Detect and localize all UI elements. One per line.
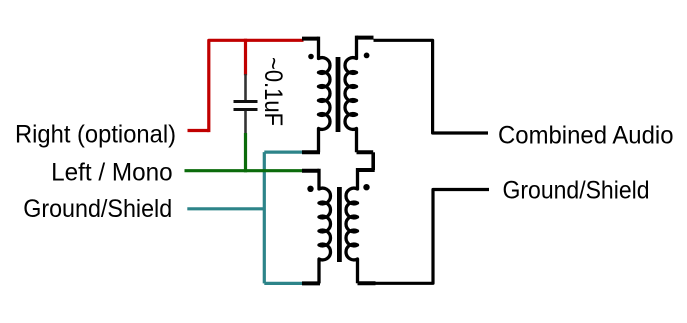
T2 secondary winding (right coil): [346, 168, 357, 283]
wire red: Right input stub at label: [188, 129, 209, 132]
T1 primary top terminal stub: [302, 37, 319, 41]
wire black: series link T1 secondary bottom to T2 secondary top: [371, 152, 375, 170]
T1 secondary top terminal stub: [357, 36, 374, 40]
T1 polarity dot primary: [308, 54, 314, 60]
svg-text:Ground/Shield: Ground/Shield: [23, 195, 172, 223]
capacitor C1 bottom plate: [234, 108, 258, 111]
capacitor C1 upper lead (grey): [244, 74, 247, 101]
wire black: output ground run to Ground/Shield (right): [375, 190, 490, 284]
wire red: vertical riser and top horizontal run to T1 primary top: [209, 40, 304, 132]
svg-text:Right (optional): Right (optional): [15, 121, 176, 149]
capacitor C1 top plate: [234, 100, 258, 103]
wire teal: vertical bus: [263, 152, 266, 283]
T2 secondary top terminal stub: [358, 168, 375, 172]
T1 polarity dot secondary: [364, 53, 370, 59]
svg-text:Ground/Shield: Ground/Shield: [503, 176, 650, 204]
T2 core: [337, 187, 342, 262]
wire teal: lower branch to T2 primary bottom: [264, 282, 302, 285]
T1 secondary winding (right coil): [345, 36, 356, 153]
svg-text:~0.1uF: ~0.1uF: [259, 57, 287, 126]
transformer T1 (top): [302, 36, 374, 153]
T1 primary winding (left coil): [319, 37, 330, 153]
wire green: capacitor bottom lead to Left/Mono rail: [244, 133, 247, 172]
T2 polarity dot primary: [307, 186, 313, 192]
svg-text:Left / Mono: Left / Mono: [51, 159, 173, 187]
wire green: Left / Mono horizontal rail to T2 primary top: [185, 169, 304, 172]
T2 polarity dot secondary: [363, 184, 369, 190]
T1 core: [336, 57, 341, 132]
svg-text:Combined Audio: Combined Audio: [498, 122, 674, 150]
T2 primary top terminal stub: [302, 169, 319, 173]
T2 primary bottom terminal stub: [302, 281, 320, 285]
T2 secondary bottom terminal stub: [358, 281, 376, 285]
wire teal: upper branch to T1 primary bottom: [264, 151, 303, 154]
wire teal: Ground/Shield stub from label: [187, 207, 264, 210]
wire black: Combined Audio output run: [374, 40, 489, 133]
capacitor C1 lower lead (grey): [244, 111, 247, 135]
T1 primary bottom terminal stub: [302, 150, 320, 154]
T1 secondary bottom terminal stub: [357, 150, 374, 154]
wire red: capacitor top lead segment (red part): [244, 39, 247, 76]
T2 primary winding (left coil): [319, 169, 330, 284]
transformer T2 (bottom): [302, 168, 376, 283]
